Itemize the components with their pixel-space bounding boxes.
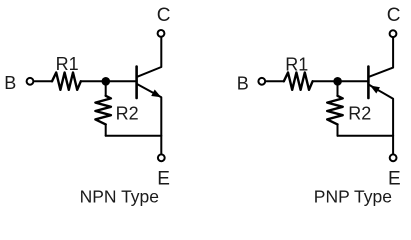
svg-text:B: B — [4, 73, 16, 93]
wire R1 to base — [81, 80, 136, 82]
wire node to R2 (PNP) — [337, 81, 339, 96]
transistor Q2 collector — [369, 38, 393, 77]
svg-text:R1: R1 — [56, 54, 79, 74]
svg-text:NPN Type: NPN Type — [80, 186, 159, 206]
resistor R1 (PNP) — [284, 73, 313, 90]
terminal C1 (open circle) — [158, 30, 165, 37]
node junction dot — [102, 77, 111, 86]
wire node to R2 — [105, 81, 107, 96]
NPN circuit — [27, 30, 165, 161]
terminal E1 (open circle) — [158, 154, 165, 161]
resistor R2 (PNP) — [327, 96, 343, 125]
svg-text:B: B — [237, 73, 249, 93]
svg-text:R2: R2 — [348, 104, 371, 124]
svg-text:C: C — [157, 5, 171, 26]
terminal B1 (open circle) — [27, 78, 34, 85]
resistor R1 — [52, 73, 81, 90]
transistor Q2 emitter — [369, 85, 393, 153]
wire bottom horizontal (PNP) — [338, 135, 394, 137]
terminal E2 (open circle) — [390, 154, 397, 161]
node junction dot (PNP) — [333, 77, 342, 86]
wire R1 to base (PNP) — [313, 80, 368, 82]
transistor Q1 emitter arrow — [151, 90, 161, 98]
terminal C2 (open circle) — [390, 30, 397, 37]
wire R2 to bottom — [105, 124, 107, 135]
terminal B2 (open circle) — [258, 78, 265, 85]
wire bottom horizontal — [106, 135, 162, 137]
svg-text:R1: R1 — [285, 55, 308, 75]
svg-text:E: E — [157, 169, 170, 190]
PNP circuit — [258, 30, 396, 161]
transistor Q1 emitter — [137, 84, 161, 153]
svg-text:R2: R2 — [116, 104, 139, 124]
svg-text:C: C — [387, 5, 401, 26]
transistor Q2 base bar — [367, 67, 370, 99]
wire R2 to bottom (PNP) — [337, 124, 339, 135]
transistor Q2 emitter arrow — [370, 86, 380, 94]
resistor R2 — [95, 96, 111, 125]
transistor Q1 collector — [137, 38, 161, 77]
svg-text:PNP Type: PNP Type — [314, 186, 392, 206]
wire B2 to R1 — [266, 80, 283, 82]
transistor Q1 base bar — [135, 67, 138, 99]
wire B1 to R1 — [35, 80, 52, 82]
